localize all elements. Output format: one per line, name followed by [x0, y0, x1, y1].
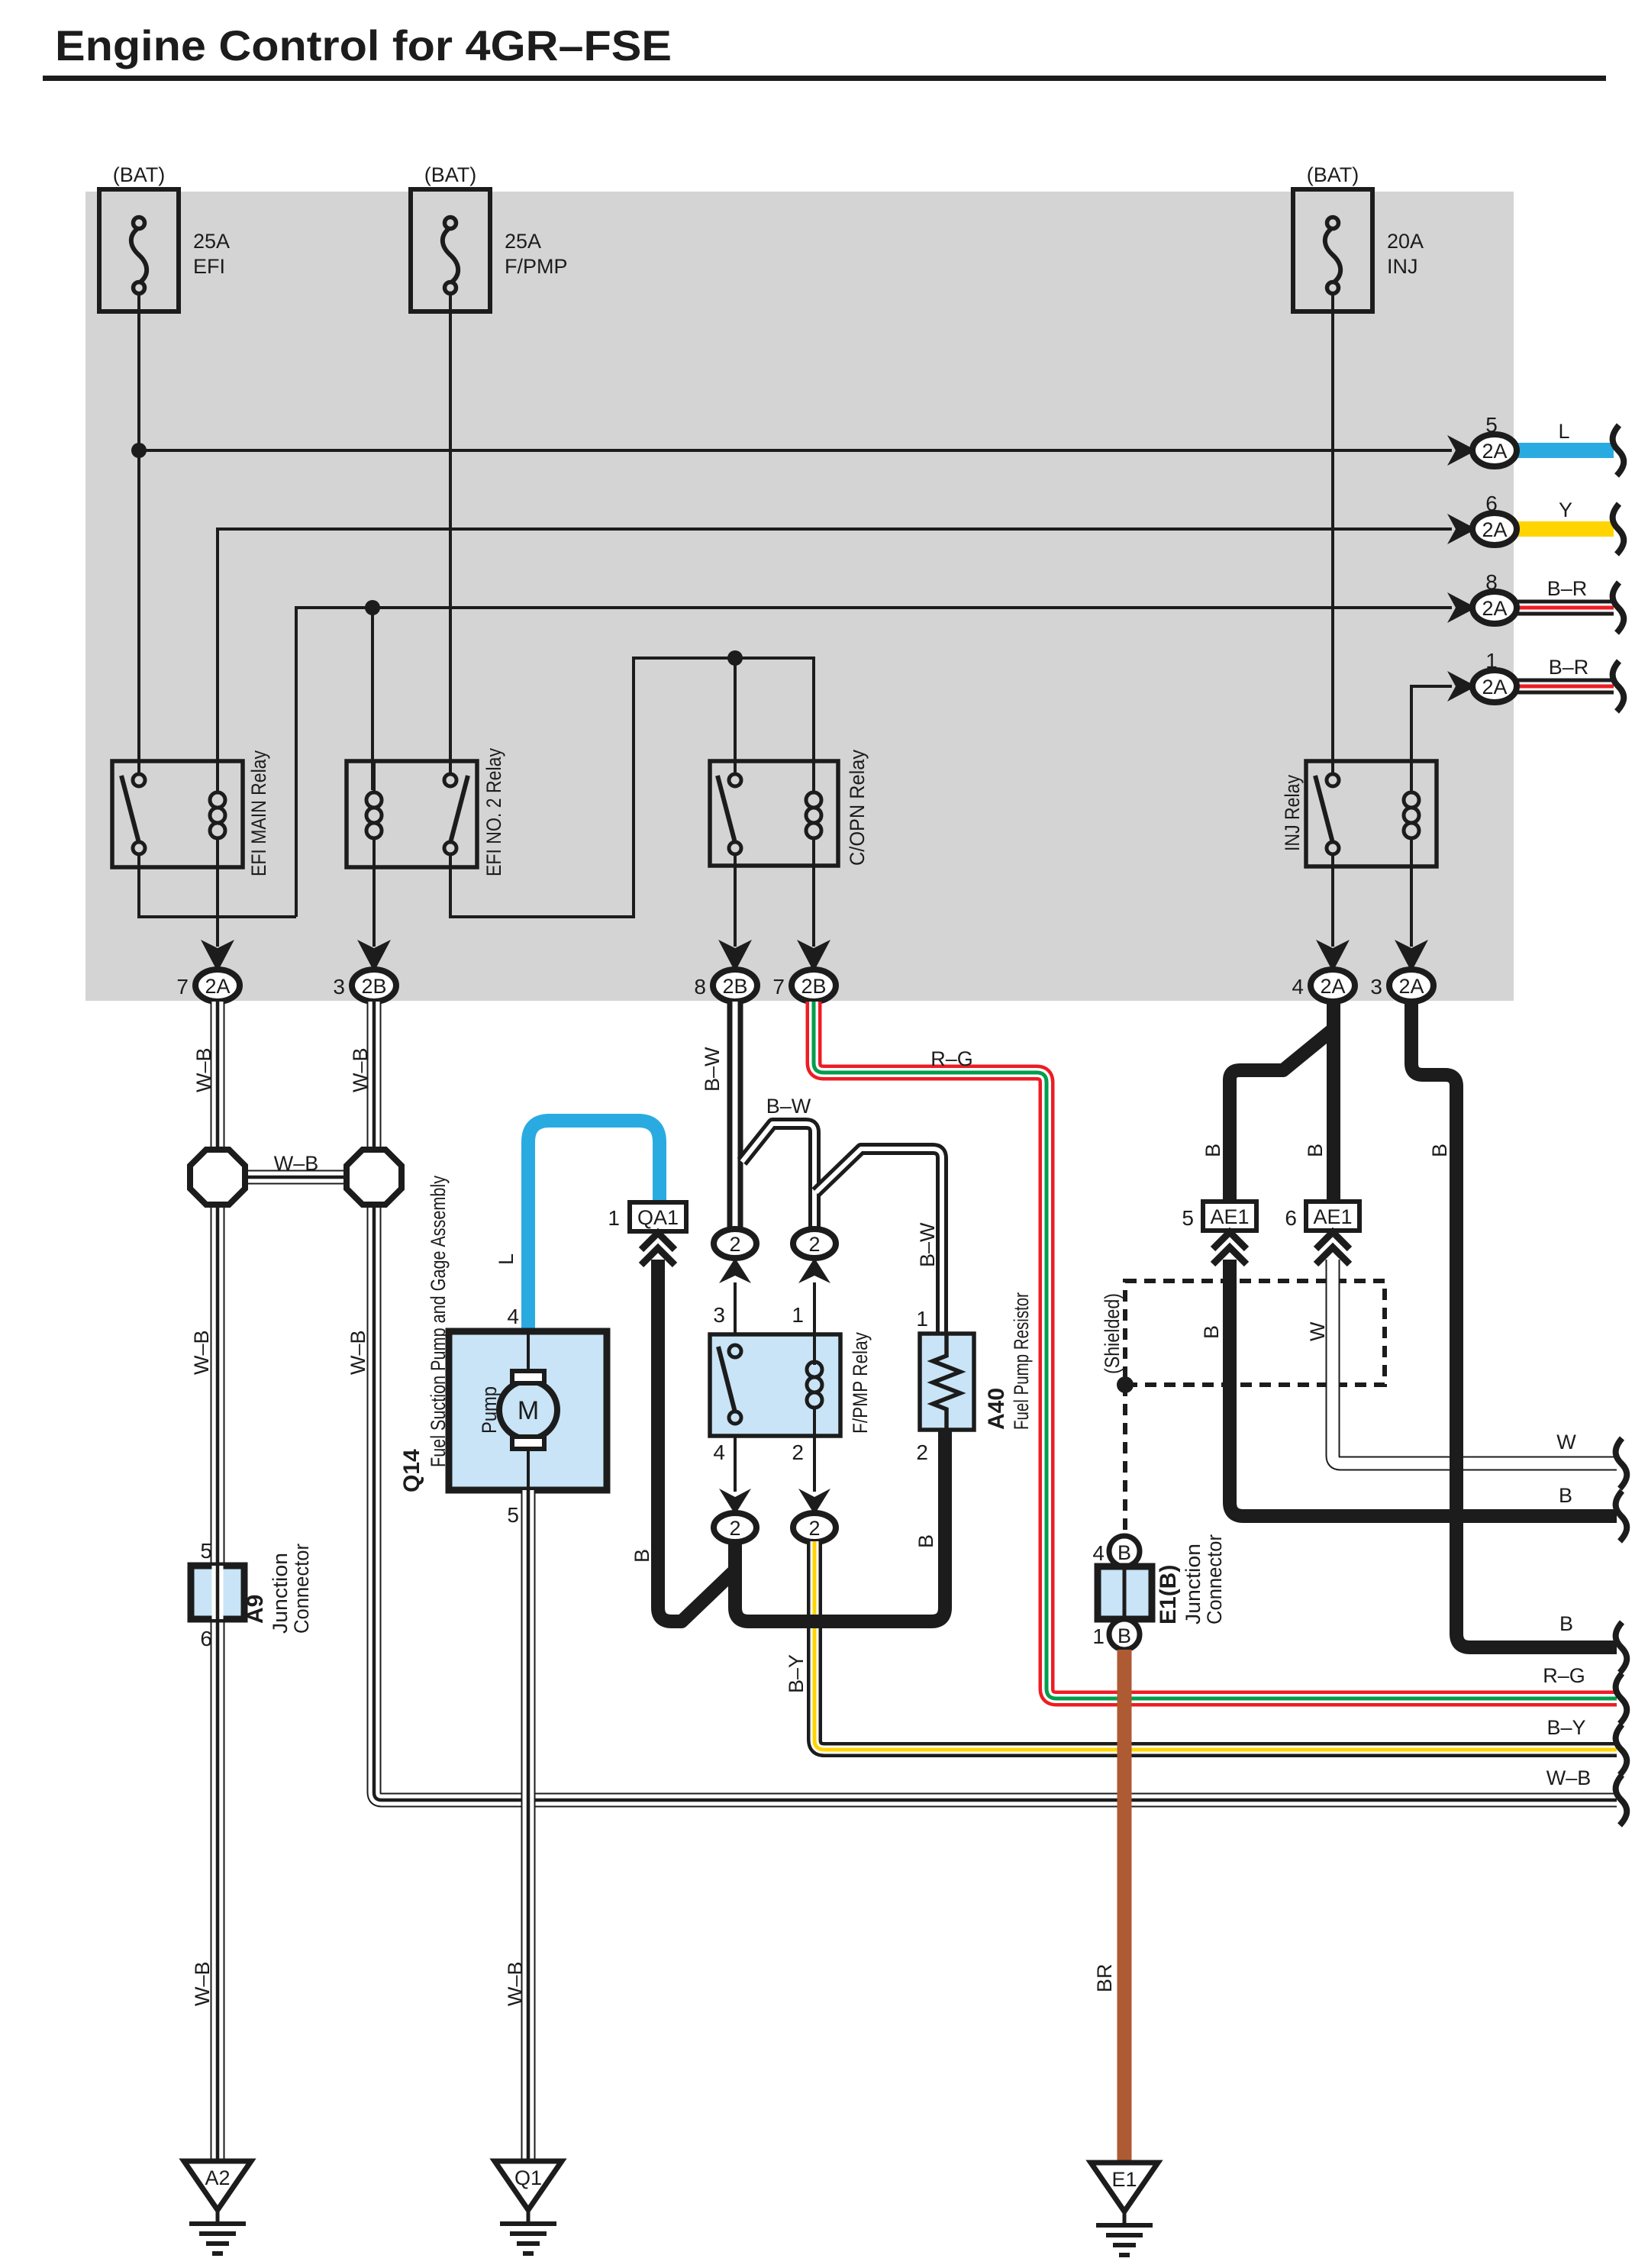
relay INJ	[1281, 761, 1437, 866]
pump assembly Q14	[399, 1176, 607, 1527]
title rule	[43, 76, 1606, 81]
svg-text:B–Y: B–Y	[785, 1654, 808, 1693]
wire fuse EFI to EFI MAIN relay switch	[137, 294, 140, 774]
svg-text:Connector: Connector	[1203, 1534, 1226, 1624]
arrow into 2B-7	[797, 940, 830, 972]
shield drain dashed wire	[1123, 1385, 1127, 1536]
svg-text:W: W	[1306, 1321, 1329, 1341]
svg-text:6: 6	[1485, 492, 1498, 515]
connector 2B pin 7	[772, 969, 836, 1002]
wire relay pin 2 down	[813, 1436, 816, 1492]
svg-text:2A: 2A	[1482, 597, 1507, 620]
svg-text:2: 2	[729, 1233, 740, 1256]
W-B wire from 2A-7 to ground A2	[211, 1002, 225, 2161]
svg-text:Q14: Q14	[399, 1449, 424, 1492]
relay EFI MAIN	[112, 750, 270, 876]
connector 2A pin 7	[176, 969, 240, 1002]
svg-text:EFI MAIN Relay: EFI MAIN Relay	[247, 750, 270, 876]
svg-text:7: 7	[176, 975, 189, 999]
right side connector arrows	[1447, 435, 1476, 702]
svg-text:(BAT): (BAT)	[113, 163, 166, 186]
connector 2A pin 3	[1370, 969, 1434, 1002]
svg-text:B: B	[1559, 1484, 1572, 1507]
relay EFI NO. 2	[347, 748, 505, 876]
wire break squiggle L	[1613, 425, 1624, 476]
svg-text:2A: 2A	[1482, 440, 1507, 463]
svg-text:B: B	[1304, 1144, 1327, 1157]
wire stub Y (yellow)	[1517, 521, 1614, 537]
svg-text:B–W: B–W	[701, 1047, 724, 1092]
svg-text:4: 4	[713, 1440, 725, 1464]
svg-text:Junction: Junction	[1182, 1544, 1205, 1624]
wire break squiggle B-R upper	[1613, 582, 1624, 633]
connector 2B pin 3	[333, 969, 396, 1002]
connector 2A pin 8	[1472, 570, 1517, 624]
B-W wire from 2B-8 down to F/PMP relay connector	[727, 1002, 743, 1230]
svg-text:B–W: B–W	[766, 1095, 811, 1118]
B-W bridge to fuel pump resistor	[816, 1149, 942, 1334]
connector AE1 pin 5	[1182, 1202, 1256, 1231]
svg-text:7: 7	[772, 975, 785, 999]
svg-text:B–R: B–R	[1549, 656, 1589, 679]
W wire AE1-6 to right edge	[1333, 1260, 1617, 1463]
svg-text:5: 5	[507, 1503, 519, 1527]
svg-text:INJ Relay: INJ Relay	[1281, 775, 1304, 851]
wire oval to relay pin 3	[734, 1282, 737, 1345]
wire break squiggle R-G	[1616, 1673, 1627, 1724]
svg-text:2B: 2B	[801, 975, 826, 998]
W-B overlay through A9	[212, 1566, 224, 1619]
svg-text:B–R: B–R	[1547, 577, 1588, 600]
svg-text:2A: 2A	[1482, 676, 1507, 698]
svg-text:2: 2	[792, 1440, 804, 1464]
svg-text:B: B	[914, 1534, 937, 1548]
connector oval 2 (F/PMP pin 3 feed)	[714, 1229, 756, 1258]
thick B branch 2A-4 to AE1-5	[1230, 1029, 1334, 1202]
svg-text:25A: 25A	[505, 230, 541, 253]
svg-text:F/PMP Relay: F/PMP Relay	[849, 1332, 872, 1434]
svg-text:W–B: W–B	[347, 1330, 369, 1375]
svg-text:W: W	[1556, 1431, 1576, 1453]
svg-text:B: B	[1559, 1612, 1573, 1635]
svg-text:B–W: B–W	[916, 1222, 939, 1267]
wire break squiggle Y	[1613, 504, 1624, 554]
thick B wire QA1 to junction bar	[658, 1260, 736, 1621]
svg-text:R–G: R–G	[930, 1047, 973, 1070]
svg-text:W–B: W–B	[349, 1047, 372, 1092]
thick B wire 2A-4 to AE1-6	[1327, 1002, 1340, 1202]
svg-text:20A: 20A	[1387, 230, 1424, 253]
svg-text:W–B: W–B	[190, 1330, 213, 1375]
arrow into 2A-1	[1447, 671, 1476, 702]
svg-text:Fuel Suction Pump and Gage Ass: Fuel Suction Pump and Gage Assembly	[427, 1176, 450, 1467]
thick B wire 2A-3 to right edge	[1411, 1002, 1617, 1647]
junction connector A9	[191, 1539, 313, 1650]
svg-text:B: B	[1201, 1144, 1224, 1157]
relay C/OPN	[710, 750, 869, 866]
svg-text:B–Y: B–Y	[1546, 1716, 1585, 1739]
svg-text:A2: A2	[205, 2166, 230, 2189]
wire row to 2A pin 5	[139, 449, 1452, 452]
arrow into 2A-5	[1447, 435, 1476, 466]
svg-text:4: 4	[507, 1305, 519, 1328]
junction octagon right	[347, 1150, 402, 1205]
chevron arrow under AE1-6	[1316, 1232, 1350, 1264]
svg-text:C/OPN Relay: C/OPN Relay	[846, 750, 869, 866]
svg-text:W–B: W–B	[192, 1047, 215, 1092]
svg-text:2B: 2B	[361, 975, 386, 998]
svg-text:L: L	[495, 1253, 518, 1265]
arrow into 2A-6	[1447, 514, 1476, 544]
svg-text:BR: BR	[1093, 1963, 1116, 1992]
relay block gray background	[85, 192, 1514, 1001]
fuel pump L wire (blue)	[528, 1121, 660, 1331]
wire row to 2A pin 8	[296, 608, 1452, 917]
svg-text:2A: 2A	[1320, 975, 1345, 998]
svg-text:W–B: W–B	[1546, 1766, 1592, 1789]
svg-text:5: 5	[1485, 413, 1498, 437]
junction node fuse EFI / row 5	[131, 443, 147, 458]
B-Y wire from F/PMP pin 2 to right edge	[814, 1541, 1617, 1750]
ground A2	[184, 2161, 251, 2253]
arrow into 2A-4	[1316, 940, 1350, 972]
ground E1	[1091, 2163, 1158, 2255]
svg-text:Q1: Q1	[514, 2166, 542, 2189]
arrow into 2B-8	[718, 940, 752, 972]
svg-text:E1: E1	[1111, 2168, 1137, 2191]
wire C/OPN coil to connector 2B-7	[812, 867, 815, 947]
svg-text:2A: 2A	[1482, 518, 1507, 541]
svg-text:B: B	[1200, 1325, 1223, 1339]
connector oval 2 (pin 4 out)	[714, 1513, 756, 1542]
svg-text:A9: A9	[243, 1595, 268, 1624]
connector 2A pin 1	[1472, 649, 1517, 702]
svg-text:5: 5	[1182, 1206, 1194, 1230]
connector oval 2 (F/PMP pin 1 feed)	[793, 1229, 836, 1258]
wire EFI MAIN relay coil to 2A pin 6 row	[218, 529, 1452, 761]
svg-text:EFI NO. 2 Relay: EFI NO. 2 Relay	[482, 748, 505, 876]
arrow into 2A-3	[1395, 940, 1428, 972]
connector 2A pin 6	[1472, 492, 1517, 545]
fuse 25A EFI	[99, 163, 230, 311]
wire break squiggle W-B	[1616, 1775, 1627, 1825]
svg-text:Junction: Junction	[269, 1553, 292, 1634]
wire INJ relay coil to 2A pin 1	[1411, 686, 1452, 761]
svg-text:1: 1	[916, 1307, 928, 1331]
svg-text:2: 2	[729, 1517, 740, 1540]
svg-text:(BAT): (BAT)	[1307, 163, 1359, 186]
chevron arrow under AE1-5	[1213, 1232, 1246, 1264]
connector 2B pin 8	[694, 969, 757, 1002]
connector 2A pin 5	[1472, 413, 1517, 466]
connector QA1	[608, 1202, 686, 1231]
wire stub B-R upper	[1517, 600, 1614, 616]
wire INJ coil to connector 2A-3	[1410, 867, 1413, 947]
svg-text:INJ: INJ	[1387, 255, 1418, 278]
wire relay pin 4 down	[734, 1436, 737, 1492]
svg-text:Connector: Connector	[290, 1544, 313, 1634]
junction connector E1(B)	[1092, 1534, 1226, 1650]
svg-text:W–B: W–B	[274, 1152, 319, 1175]
wire EFI NO.2 relay coil drop from junction	[371, 608, 374, 790]
down arrow into oval pin4	[719, 1489, 751, 1515]
svg-text:2B: 2B	[722, 975, 747, 998]
svg-text:M: M	[518, 1396, 539, 1425]
B-W branch bridge to relay coil connector	[742, 1124, 814, 1230]
svg-text:(Shielded): (Shielded)	[1101, 1293, 1124, 1374]
svg-text:B: B	[1117, 1541, 1131, 1564]
fuse 25A F/PMP	[411, 163, 568, 311]
wire break squiggle B-R lower	[1613, 661, 1624, 711]
svg-text:Pump: Pump	[478, 1386, 501, 1434]
arrow into 2A-7	[201, 940, 234, 972]
fuse 20A INJ	[1293, 163, 1424, 311]
wire EFI MAIN coil to connector 2A-7	[216, 867, 219, 947]
svg-text:2: 2	[808, 1517, 820, 1540]
svg-text:3: 3	[1370, 975, 1382, 999]
shield junction dot	[1117, 1376, 1134, 1393]
wire stub L (blue)	[1517, 443, 1614, 458]
relay F/PMP	[710, 1332, 872, 1436]
svg-text:4: 4	[1292, 975, 1304, 999]
wire C/OPN relay switch feed	[734, 658, 737, 774]
svg-text:1: 1	[608, 1206, 620, 1230]
svg-text:3: 3	[333, 975, 345, 999]
svg-text:B: B	[1117, 1624, 1131, 1647]
svg-text:Engine Control for 4GR–FSE: Engine Control for 4GR–FSE	[55, 21, 672, 69]
connector arrows into 2A/2B ovals (bottom of relay block)	[201, 940, 1428, 972]
svg-text:R–G: R–G	[1543, 1664, 1585, 1687]
thick B wire AE1-5 to right edge	[1230, 1260, 1617, 1516]
svg-text:6: 6	[1285, 1206, 1297, 1230]
wire fuse F/PMP to EFI NO.2 relay switch	[449, 294, 452, 774]
junction octagon left	[190, 1150, 245, 1205]
svg-text:L: L	[1558, 420, 1569, 443]
arrow into 2B-3	[357, 940, 391, 972]
ground Q1	[495, 2161, 562, 2253]
wire break squiggle B (2A-3)	[1616, 1622, 1627, 1673]
wire EFI NO.2 coil to connector 2B-3	[372, 867, 376, 947]
up arrow into oval pin1	[798, 1258, 830, 1283]
W-B wire between junction octagons	[218, 1170, 374, 1185]
svg-text:8: 8	[1485, 570, 1498, 594]
svg-text:A40: A40	[984, 1388, 1009, 1430]
svg-text:5: 5	[200, 1539, 212, 1563]
wire oval to relay pin 1	[813, 1282, 816, 1334]
svg-text:2A: 2A	[205, 975, 230, 998]
chevron arrow under QA1	[641, 1233, 675, 1265]
junction node row 8 / EFI NO.2 coil	[365, 600, 380, 615]
wire stub B-R lower	[1517, 679, 1614, 695]
R-G wire from 2B-7 to right edge	[814, 1002, 1617, 1699]
BR brown wire to ground E1	[1117, 1650, 1132, 2163]
svg-text:1: 1	[1092, 1624, 1105, 1648]
shielded dashed box	[1125, 1281, 1385, 1536]
wire EFI NO.2 switch output loop to C/OPN relay	[450, 658, 814, 917]
wire break squiggle W	[1616, 1438, 1627, 1489]
wire break squiggle B (AE1-5)	[1616, 1491, 1627, 1541]
svg-text:2A: 2A	[1398, 975, 1424, 998]
down arrow into oval pin2	[798, 1489, 830, 1515]
svg-text:1: 1	[1485, 649, 1498, 673]
W-B wire pump to ground Q1	[521, 1490, 536, 2161]
wire EFI MAIN switch output to row 8 corner	[139, 854, 296, 917]
wire INJ switch to connector 2A-4	[1331, 854, 1334, 947]
svg-text:1: 1	[792, 1303, 804, 1327]
arrow into 2A-8	[1447, 592, 1476, 623]
svg-text:3: 3	[713, 1303, 725, 1327]
junction node C/OPN feed	[727, 650, 743, 666]
svg-text:B: B	[1428, 1144, 1451, 1157]
thick B wire F/PMP pin4 to fuel pump resistor pin 2	[735, 1430, 945, 1621]
svg-text:F/PMP: F/PMP	[505, 255, 568, 278]
connector oval 2 (pin 2 out)	[793, 1513, 836, 1542]
svg-text:E1(B): E1(B)	[1156, 1565, 1181, 1624]
svg-text:AE1: AE1	[1313, 1205, 1352, 1228]
W-B wire from 2B-3 to bottom right	[374, 1002, 1617, 1800]
svg-text:B: B	[630, 1549, 653, 1563]
svg-text:2: 2	[916, 1440, 928, 1464]
wire break squiggle B-Y	[1616, 1724, 1627, 1775]
wire C/OPN switch to connector 2B-8	[734, 854, 737, 947]
wire fuse INJ to INJ relay switch	[1331, 294, 1334, 774]
svg-text:EFI: EFI	[193, 255, 225, 278]
svg-text:4: 4	[1092, 1541, 1105, 1565]
svg-text:2: 2	[808, 1233, 820, 1256]
svg-text:W–B: W–B	[191, 1961, 214, 2006]
svg-text:Y: Y	[1559, 498, 1572, 521]
up arrow into oval pin3	[719, 1258, 751, 1283]
svg-text:QA1: QA1	[637, 1206, 679, 1229]
svg-text:AE1: AE1	[1210, 1205, 1249, 1228]
svg-text:6: 6	[200, 1627, 212, 1650]
fuel pump resistor A40	[916, 1292, 1033, 1464]
connector 2A pin 4	[1292, 969, 1355, 1002]
svg-text:25A: 25A	[193, 230, 230, 253]
svg-text:8: 8	[694, 975, 706, 999]
connector AE1 pin 6	[1285, 1202, 1359, 1231]
svg-text:Fuel Pump Resistor: Fuel Pump Resistor	[1010, 1292, 1033, 1430]
svg-text:(BAT): (BAT)	[424, 163, 477, 186]
